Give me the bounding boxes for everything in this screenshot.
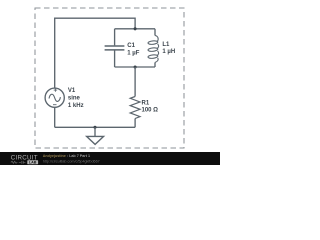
wire: tank top edge <box>115 28 155 30</box>
wire: tank bottom edge <box>115 66 155 68</box>
resistor R1 <box>130 97 158 119</box>
wire: V1 top, top rail, feed down to tank <box>55 18 135 88</box>
svg-text:R1: R1 <box>142 100 150 106</box>
svg-text:V1: V1 <box>68 88 76 94</box>
svg-text:L1: L1 <box>162 42 170 48</box>
wire: V1 bottom <box>54 107 56 127</box>
svg-text:Andyejustine : Lab 7 Part 1: Andyejustine : Lab 7 Part 1 <box>43 154 90 158</box>
wire: feed down to resistor <box>134 67 136 97</box>
inductor L1 <box>148 29 175 67</box>
svg-text:1 kHz: 1 kHz <box>68 103 84 109</box>
selection box <box>35 8 184 148</box>
footer text line 1 <box>43 154 90 158</box>
wire: resistor bottom to bottom rail <box>134 119 136 128</box>
capacitor C1 <box>105 29 140 67</box>
footer text line 2 <box>43 160 100 164</box>
node: tank top junction <box>134 27 137 30</box>
svg-text:C1: C1 <box>127 43 135 49</box>
svg-text:http://circuitlab.com/c/5p4gkf: http://circuitlab.com/c/5p4gkfbd667 <box>43 160 100 164</box>
footer bar <box>0 152 220 165</box>
ground <box>87 127 104 144</box>
wire: bottom rail <box>55 126 135 128</box>
node: tank bottom junction <box>134 65 137 68</box>
node: ground junction <box>93 126 96 129</box>
svg-text:1 µH: 1 µH <box>162 49 175 55</box>
voltage source V1 <box>45 88 83 109</box>
footer logo CircuitLab <box>11 155 38 165</box>
svg-text:100 Ω: 100 Ω <box>142 108 159 114</box>
svg-text:1 µF: 1 µF <box>127 50 139 56</box>
svg-text:LAB: LAB <box>29 161 37 165</box>
svg-text:sine: sine <box>68 95 81 101</box>
